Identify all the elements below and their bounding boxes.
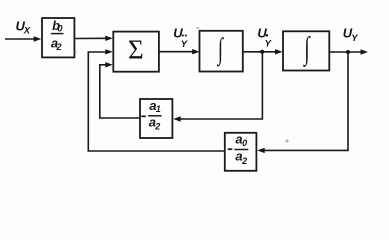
svg-text:∫: ∫	[216, 33, 223, 67]
block b0/a2	[42, 18, 74, 57]
label U y-dot	[257, 26, 272, 50]
wire node Uy down to -a0/a2 input	[264, 52, 349, 150]
wire node Uydot down to -a1/a2 input	[180, 52, 263, 119]
faint scan dash right of b0/a2 block	[75, 52, 77, 54]
arrowhead output Uy	[361, 49, 369, 54]
arrowhead Ux input	[34, 36, 42, 41]
svg-text:2: 2	[154, 122, 160, 132]
arrowhead into summer top input	[105, 36, 113, 41]
svg-text:0: 0	[58, 24, 63, 34]
svg-text:2: 2	[56, 42, 62, 52]
arrowhead into integrator2	[275, 49, 283, 54]
svg-text:0: 0	[242, 138, 247, 148]
arrowhead into -a1/a2 input	[173, 116, 181, 121]
label Uy output	[343, 26, 359, 45]
svg-text:2: 2	[241, 156, 247, 166]
block -a0/a2	[225, 133, 257, 171]
faint scan speck near integrator2 numerator area	[285, 139, 288, 142]
wire b0/a2 to summer	[74, 37, 107, 39]
fraction -a1/a2	[141, 98, 161, 131]
wire integrator2 to output	[329, 51, 361, 53]
faint scan speck above integrator1 corner	[196, 27, 199, 28]
arrowhead into summer bottom input	[105, 62, 113, 67]
svg-text:1: 1	[156, 104, 161, 114]
wire Ux input	[5, 38, 35, 40]
fraction b0/a2	[51, 18, 64, 52]
svg-text:Σ: Σ	[128, 35, 144, 65]
wire -a1/a2 output up to summer bottom input	[100, 65, 140, 118]
node junction dot Uydot	[260, 50, 264, 54]
arrowhead into -a0/a2 input	[257, 148, 265, 153]
wire summer to integrator1	[159, 51, 195, 53]
label U y-double-dot	[173, 26, 189, 50]
arrowhead into summer middle input	[105, 49, 113, 54]
node junction dot Uy	[346, 50, 350, 54]
fraction -a0/a2	[228, 132, 249, 167]
summer block sigma	[113, 32, 159, 72]
integrator block 2	[283, 31, 329, 70]
svg-text:X: X	[23, 25, 31, 36]
wire -a0/a2 output up to summer middle input	[88, 52, 225, 151]
wire integrator1 to integrator2	[243, 51, 278, 53]
block -a1/a2	[140, 99, 172, 138]
label Ux	[16, 19, 31, 37]
arrowhead into integrator1	[192, 49, 200, 54]
integrator block 1	[200, 31, 243, 72]
